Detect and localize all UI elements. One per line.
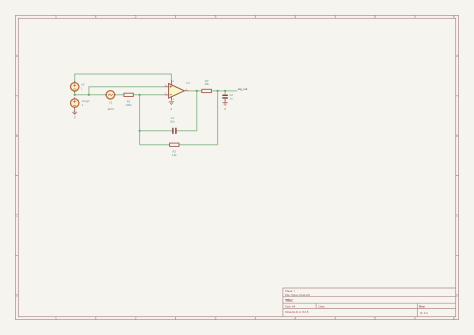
svg-text:Rev:: Rev: [419,304,425,308]
capacitor C1 [170,116,176,134]
wire: C2 tap [224,91,226,95]
svg-text:12k: 12k [172,153,177,157]
svg-text:1: 1 [55,317,57,321]
title block [283,288,456,317]
svg-text:Id: 1/1: Id: 1/1 [420,311,428,315]
svg-text:Title:: Title: [285,299,294,303]
svg-text:2: 2 [135,317,137,321]
svg-text:6: 6 [453,15,455,19]
svg-text:10k: 10k [204,82,209,86]
svg-text:5: 5 [374,15,376,19]
svg-text:sig_out: sig_out [238,87,248,91]
wire: R1 to -input [133,94,164,96]
svg-text:3: 3 [214,317,216,321]
svg-text:3: 3 [214,15,216,19]
ground below C2 [223,103,228,111]
wire: V+ top rail [75,74,172,83]
svg-text:KiCad E.D.A. 8.0.5: KiCad E.D.A. 8.0.5 [285,310,309,314]
svg-text:100k: 100k [126,103,133,107]
svg-text:10n: 10n [170,120,175,124]
ground below Vneg1 [72,109,77,120]
svg-text:1n: 1n [229,97,233,101]
svg-text:File: Spice-Vival.sch: File: Spice-Vival.sch [285,293,311,297]
svg-text:4: 4 [294,15,296,19]
voltage source V2 [71,81,85,93]
wire: C1 branch [140,91,197,131]
svg-text:5: 5 [374,317,376,321]
op-amp U1 [165,80,191,101]
svg-text:6: 6 [453,317,455,321]
svg-text:1: 1 [55,15,57,19]
resistor R2 [170,143,179,157]
svg-text:2: 2 [135,15,137,19]
wire: midrail jog to +input [89,87,165,95]
AC source V1 [105,91,116,111]
svg-text:Date:: Date: [319,304,326,308]
svg-text:V1: V1 [109,100,113,104]
svg-text:4: 4 [294,317,296,321]
svg-text:ac=1: ac=1 [108,107,115,111]
ground below U1 [169,102,174,111]
wire: feedback vertical [139,95,141,145]
capacitor C2 [222,93,233,102]
voltage source Vneg1 [71,97,91,109]
wire: output to sig_out [188,90,237,92]
svg-text:Size: A4: Size: A4 [285,304,296,308]
resistor R1 [124,93,133,107]
wire: R2 branch [140,91,218,145]
resistor R3 [202,79,212,93]
junction dots [74,90,227,132]
svg-text:U1: U1 [186,81,190,85]
wire: source junction to V1 to R1 main path [75,91,124,95]
